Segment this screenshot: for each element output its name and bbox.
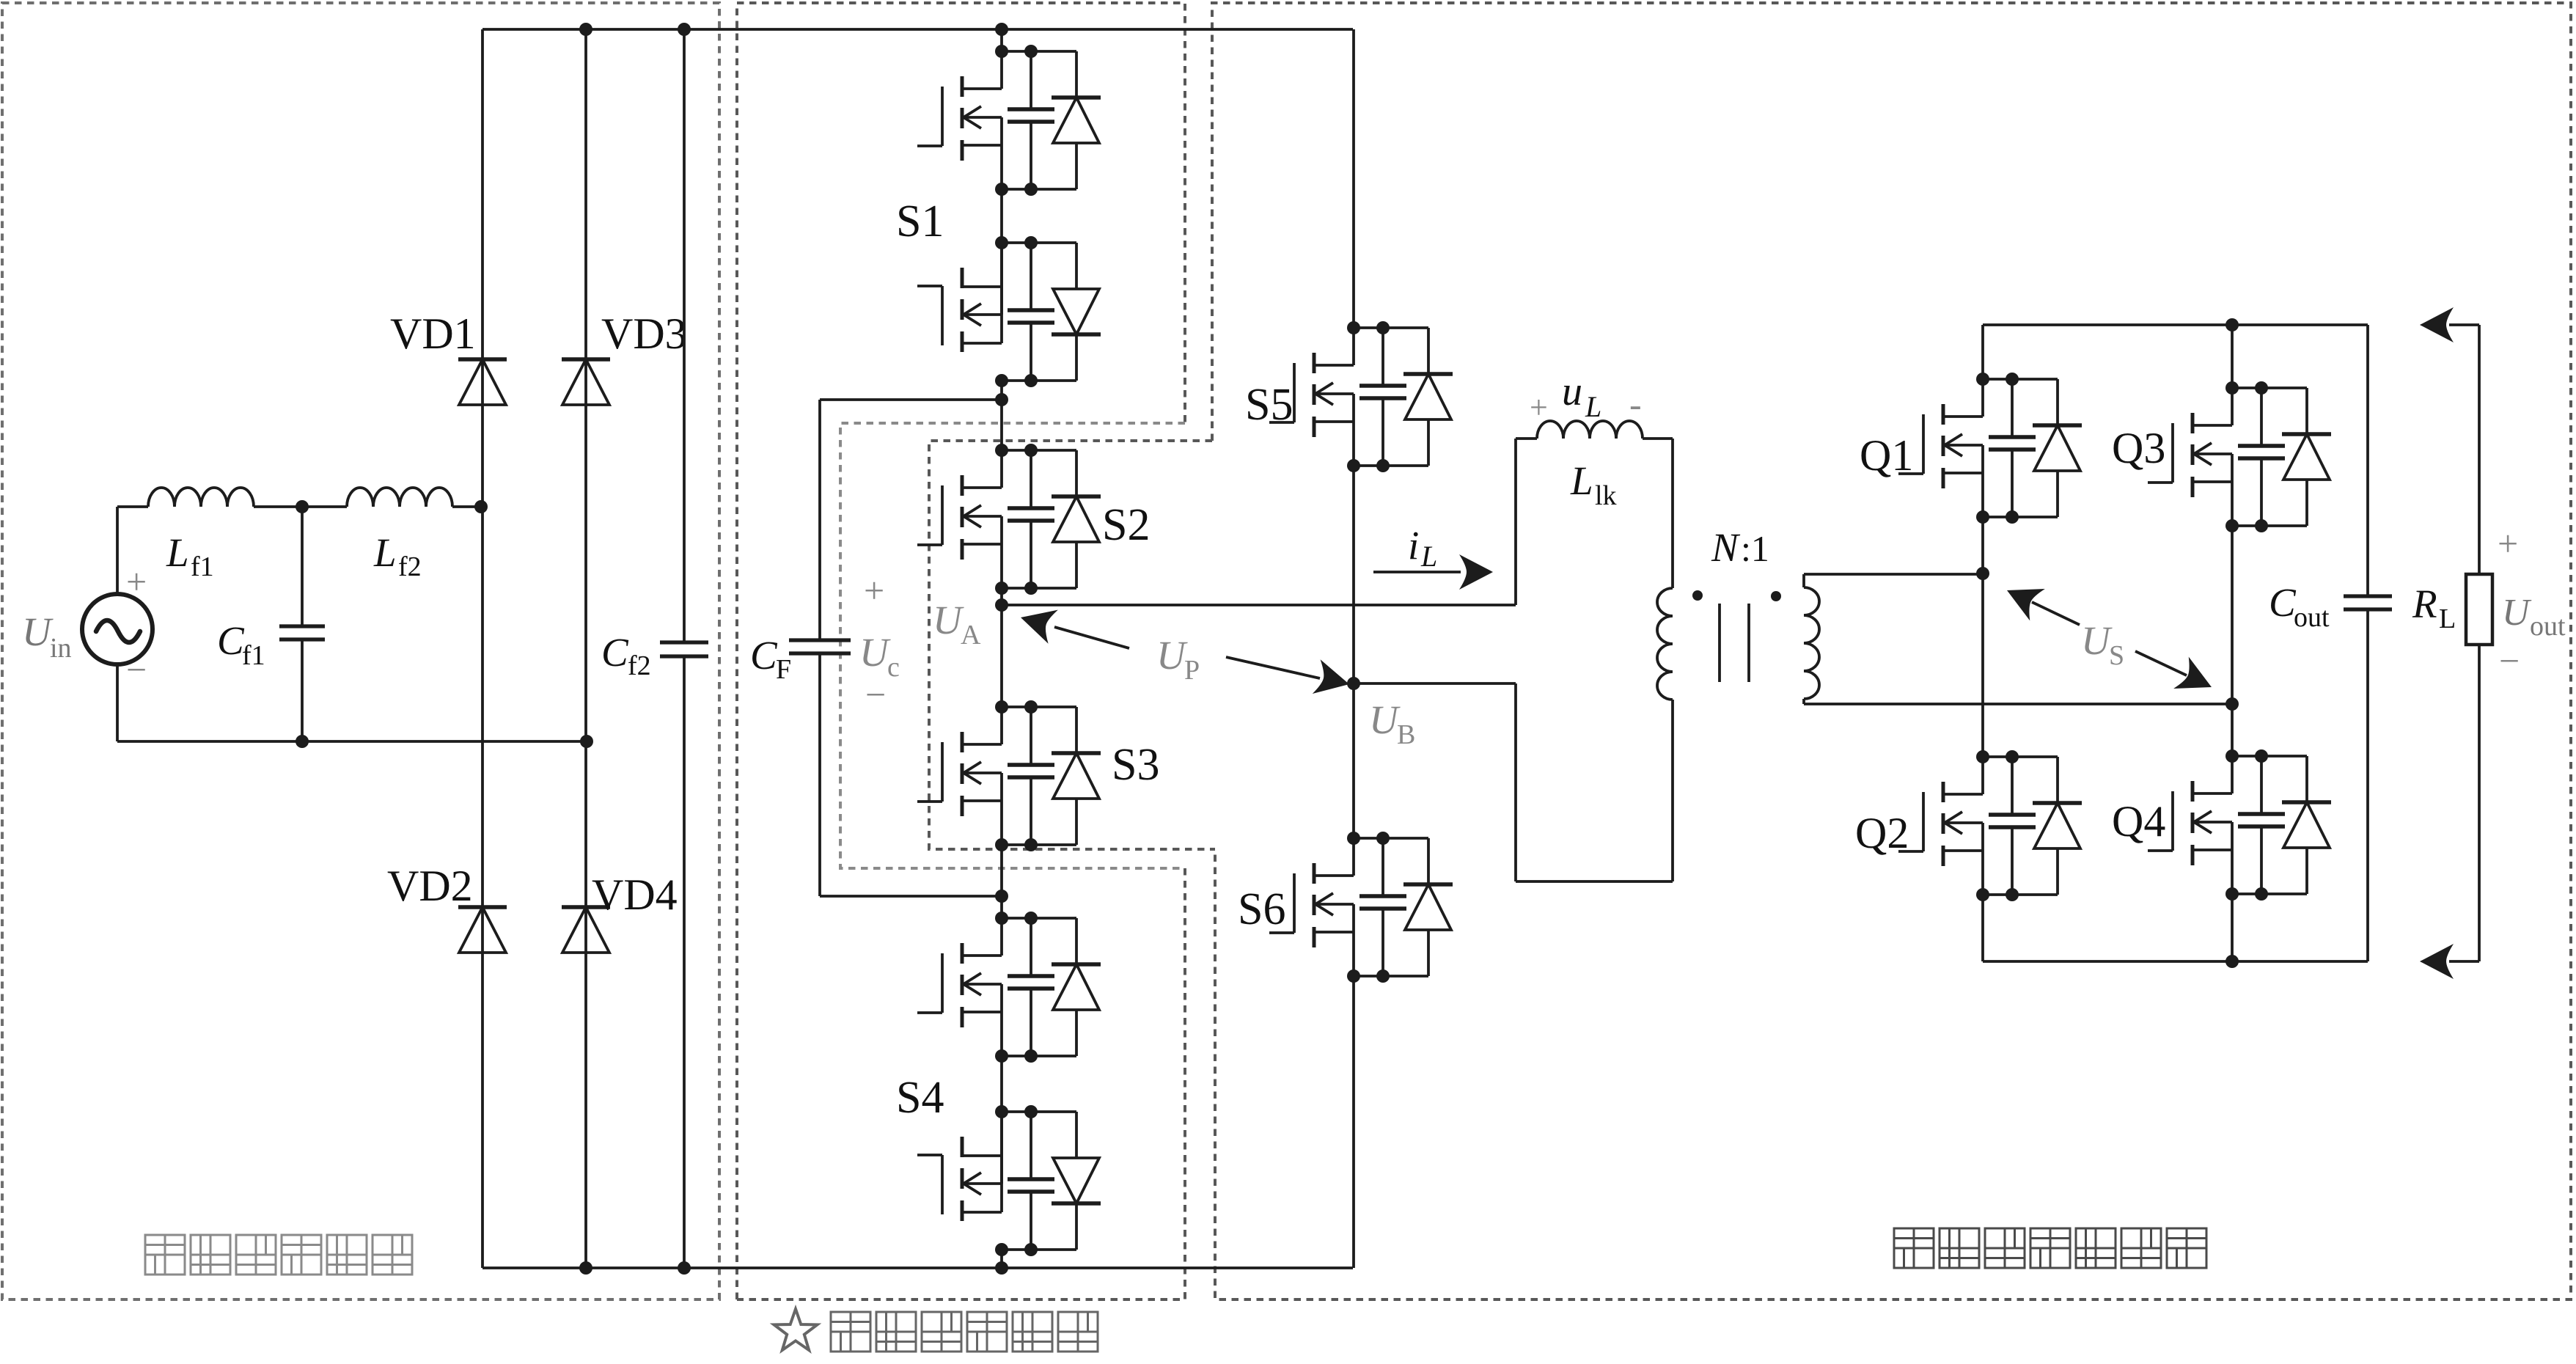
svg-text:VD1: VD1 [390, 309, 476, 358]
svg-text:L: L [166, 530, 189, 575]
svg-text:R: R [2412, 582, 2437, 626]
node: S1 leg top on bus [995, 23, 1008, 36]
transformer secondary winding [1804, 587, 1819, 699]
wire: bottom DC bus [482, 1266, 1353, 1269]
svg-text:Q1: Q1 [1860, 431, 1913, 480]
svg-text:f1: f1 [242, 640, 265, 671]
diode VD2 [458, 907, 507, 953]
svg-text:c: c [887, 652, 900, 683]
svg-text:U: U [933, 598, 964, 642]
switch S1 (two series MOSFET cells) [917, 45, 1101, 196]
svg-text:C: C [217, 618, 245, 663]
wire: VD1/VD2 leg [481, 29, 484, 1268]
wire: source top lead [116, 507, 119, 595]
svg-text:C: C [601, 630, 629, 675]
inductor Lf2 [347, 488, 452, 507]
dashed box: main power conversion section [1212, 3, 2571, 1299]
svg-text:L: L [2439, 604, 2456, 634]
wire: Llk loop left leg [1514, 439, 1517, 605]
diode VD4 [562, 907, 610, 953]
transistor Q4 [2148, 749, 2331, 901]
svg-text:P: P [1184, 655, 1200, 686]
transformer polarity dot primary [1692, 590, 1703, 601]
wire: Llk to primary winding [1643, 437, 1673, 440]
svg-text:Q3: Q3 [2112, 424, 2165, 472]
svg-text:L: L [1420, 540, 1437, 573]
svg-text:f1: f1 [191, 551, 214, 582]
capacitor Cout [2366, 325, 2369, 595]
node: Q1-Q2 midpoint (secondary top) [1976, 567, 1989, 580]
wire: S1 top to bus [1000, 29, 1003, 51]
transistor Q2 [1898, 750, 2082, 901]
node: rectifier midpoint A (VD1/VD2 leg) [474, 500, 488, 513]
wire: secondary bottom rail to Q3/Q4 midpoint [1802, 699, 1805, 704]
transformer core [1718, 604, 1721, 682]
node: Cf1 bottom [296, 735, 309, 748]
svg-text:VD2: VD2 [387, 862, 473, 910]
wire: Q3/Q4 leg [2231, 325, 2234, 388]
node: VD4 bottom on bus [579, 1261, 592, 1275]
svg-text:S2: S2 [1102, 500, 1150, 550]
switch S6 [1269, 832, 1453, 983]
transformer primary winding [1657, 588, 1673, 700]
wire: UB wire to transformer loop [1354, 682, 1516, 685]
wire: S1 inter-cell link [1000, 189, 1003, 243]
svg-text:C: C [2269, 580, 2297, 625]
diode VD1 [458, 359, 507, 405]
svg-text:+: + [2498, 523, 2518, 564]
svg-text:f2: f2 [398, 551, 422, 582]
svg-text:Q2: Q2 [1855, 809, 1909, 857]
svg-text:S5: S5 [1245, 380, 1293, 430]
node: S3-S4 junction (CF bottom tap) [1000, 845, 1003, 918]
switch S3 [917, 700, 1101, 851]
svg-text:out: out [2530, 611, 2566, 642]
node UA [1000, 588, 1003, 707]
AC source Uin [82, 594, 153, 664]
node: S4 leg bottom on bus [995, 1261, 1008, 1275]
svg-text:U: U [2081, 618, 2113, 663]
svg-text:lk: lk [1595, 480, 1617, 511]
node: Q3-Q4 midpoint (secondary bottom) [2225, 697, 2239, 711]
wire: UA output wire to transformer loop [1002, 604, 1516, 606]
svg-text:U: U [2502, 592, 2532, 634]
svg-text:VD3: VD3 [601, 309, 687, 358]
wire: source bottom lead / return wire [116, 664, 119, 741]
svg-text:C: C [750, 633, 778, 678]
svg-text:F: F [776, 654, 791, 685]
node: bottom rail / Q4 leg [2225, 955, 2239, 968]
svg-text:−: − [126, 649, 147, 690]
wire: Q bridge top rail [1983, 323, 2368, 326]
svg-text:i: i [1408, 523, 1419, 568]
capacitor Cf2 [683, 29, 686, 641]
wire: secondary top rail to Q1/Q2 midpoint [1802, 574, 1805, 587]
svg-text:S4: S4 [896, 1073, 944, 1123]
wire: VD3/VD4 leg [584, 29, 587, 1268]
node: Cf1 top tap [296, 500, 309, 513]
wire: Q bridge bottom rail [1983, 960, 2368, 963]
wire: S4 bottom to bus [1000, 1250, 1003, 1268]
svg-text:S3: S3 [1112, 740, 1159, 790]
dashed box: grid-side rectifier section [2, 3, 719, 1299]
svg-text:+: + [864, 570, 884, 611]
svg-text:+: + [126, 561, 147, 602]
section label: grid-side rectifier (Chinese) [145, 1235, 412, 1275]
wire: Lf2 to rectifier midpoint A [452, 505, 481, 508]
switch S5 [1269, 321, 1453, 472]
svg-text:U: U [22, 609, 54, 654]
node: S1-S2 junction (CF top tap) [1000, 381, 1003, 450]
switch S2 [917, 444, 1101, 595]
transistor Q3 [2148, 381, 2331, 532]
svg-text:u: u [1562, 369, 1582, 414]
svg-text:Q4: Q4 [2112, 797, 2165, 846]
section label: main power conversion circuit (Chinese) [1894, 1228, 2206, 1268]
wire: Q1/Q2 leg [1981, 325, 1984, 379]
wire: S6 bottom to bus [1352, 976, 1355, 1268]
svg-text:in: in [50, 633, 72, 664]
node: rectifier midpoint B (VD3/VD4 leg) [580, 735, 593, 748]
wire: primary bottom leg [1671, 700, 1674, 881]
svg-text::1: :1 [1741, 528, 1769, 569]
wire: S5 bottom to UB node [1352, 466, 1355, 683]
wire: S5 leg from top bus [1352, 29, 1355, 328]
svg-text:U: U [859, 630, 891, 675]
svg-text:S: S [2109, 640, 2124, 671]
inductor Lf1 [148, 488, 254, 507]
capacitor Cf1 [301, 507, 304, 625]
node: VD3 top on bus [579, 23, 592, 36]
svg-text:−: − [2499, 640, 2520, 681]
svg-text:VD4: VD4 [592, 870, 678, 919]
svg-text:S6: S6 [1238, 884, 1285, 934]
svg-text:out: out [2294, 602, 2330, 633]
wire: S4 inter-cell link [1000, 1056, 1003, 1112]
switch S4 (two series MOSFET cells) [917, 912, 1101, 1063]
svg-text:f2: f2 [628, 650, 651, 681]
svg-text:A: A [961, 620, 981, 650]
svg-text:−: − [865, 674, 886, 715]
diode VD3 [562, 359, 610, 405]
node: Cf2 bottom on bus [678, 1261, 691, 1275]
wire: UB node to S6 [1352, 683, 1355, 838]
svg-text:L: L [1570, 458, 1593, 503]
node: top rail / Q3 leg [2225, 318, 2239, 331]
svg-text:B: B [1397, 719, 1415, 750]
wire: top DC bus [482, 28, 1353, 31]
transformer polarity dot secondary [1771, 591, 1781, 601]
transistor Q1 [1898, 373, 2082, 524]
node UB [1347, 677, 1360, 690]
svg-text:L: L [1585, 390, 1601, 423]
wire: Lf1 to Lf2 [254, 505, 347, 508]
section label: star + flying capacitor bridge arm (Chinese) [774, 1309, 818, 1350]
svg-text:U: U [1156, 633, 1188, 678]
inductor Llk (leakage) [1537, 421, 1643, 439]
flying capacitor CF [820, 398, 1002, 401]
svg-text:L: L [373, 530, 397, 575]
svg-text:N: N [1711, 525, 1741, 570]
resistor RL with output arrows [2420, 307, 2454, 342]
svg-text:-: - [1629, 384, 1642, 425]
dashed box: flying-capacitor bridge arm section [737, 3, 1185, 1299]
svg-text:+: + [1530, 389, 1548, 425]
svg-text:U: U [1369, 697, 1401, 742]
svg-text:S1: S1 [896, 197, 944, 246]
node: Cf2 top on bus [678, 23, 691, 36]
